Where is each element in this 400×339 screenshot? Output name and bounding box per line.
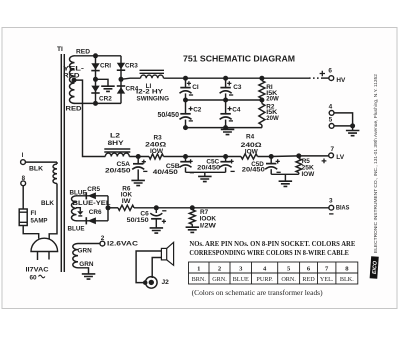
diode CR5 bbox=[85, 192, 87, 199]
node C3 top bbox=[223, 76, 228, 81]
node C6 bbox=[154, 205, 159, 210]
wire heater bottom to ground bbox=[78, 268, 89, 274]
svg-text:GRN: GRN bbox=[78, 247, 93, 254]
resistor R4 bbox=[241, 154, 258, 159]
svg-text:L2: L2 bbox=[110, 132, 121, 139]
resistor R5 bbox=[296, 158, 302, 172]
node center tap bbox=[72, 78, 77, 83]
node C5B bbox=[183, 154, 188, 159]
svg-text:4: 4 bbox=[329, 104, 333, 111]
svg-text:CR5: CR5 bbox=[87, 186, 100, 193]
ground (R7) bbox=[186, 227, 200, 232]
svg-text:20/450: 20/450 bbox=[242, 167, 266, 174]
minus sign BIAS bbox=[329, 213, 333, 215]
svg-text:BRN.: BRN. bbox=[192, 276, 207, 283]
capacitor C1 bbox=[185, 78, 187, 87]
svg-text:GRN.: GRN. bbox=[212, 276, 227, 283]
svg-text:BLUE: BLUE bbox=[233, 276, 249, 283]
svg-text:BLK: BLK bbox=[29, 166, 43, 173]
svg-text:ORN.: ORN. bbox=[281, 276, 296, 283]
ground (filter bank) bbox=[227, 128, 229, 130]
ground (heater) bbox=[82, 274, 96, 279]
node R1/R2 bbox=[259, 98, 264, 103]
svg-text:NOs. ARE PIN NOs. ON 8-PIN SOC: NOs. ARE PIN NOs. ON 8-PIN SOCKET. COLOR… bbox=[189, 240, 355, 248]
svg-text:I2-2 HY: I2-2 HY bbox=[136, 89, 164, 96]
wire pins 4,5 to ground bbox=[334, 113, 353, 126]
svg-text:CI: CI bbox=[192, 84, 199, 91]
svg-text:IOW: IOW bbox=[302, 171, 316, 178]
svg-text:IW: IW bbox=[122, 198, 132, 205]
capacitor C5C bbox=[225, 157, 227, 162]
EICO logo bbox=[370, 256, 379, 278]
svg-text:751 SCHEMATIC DIAGRAM: 751 SCHEMATIC DIAGRAM bbox=[183, 55, 295, 64]
wire L2 to R3 bbox=[129, 156, 149, 158]
svg-text:II7VAC: II7VAC bbox=[26, 267, 49, 274]
svg-text:EICO: EICO bbox=[372, 260, 379, 274]
svg-text:PURP.: PURP. bbox=[256, 276, 273, 283]
node C4 bottom bbox=[223, 125, 228, 130]
wire HV secondary bottom bbox=[74, 102, 122, 104]
node bottom tap bbox=[93, 101, 98, 106]
capacitor C5A bbox=[137, 157, 139, 164]
svg-text:YEL.: YEL. bbox=[320, 276, 334, 283]
svg-text:R4: R4 bbox=[246, 133, 255, 140]
svg-text:BIAS: BIAS bbox=[336, 205, 350, 212]
svg-text:TI: TI bbox=[57, 46, 63, 53]
speaker cone bbox=[167, 242, 174, 265]
wire mid rail bbox=[186, 99, 262, 101]
svg-text:IOW: IOW bbox=[150, 148, 164, 155]
wire center tap to chassis bbox=[76, 208, 80, 212]
svg-text:20/450: 20/450 bbox=[197, 165, 221, 172]
transformer T1 core bbox=[61, 54, 64, 272]
capacitor C6 (reversed) bbox=[155, 208, 157, 213]
svg-text:8HY: 8HY bbox=[108, 140, 125, 147]
ground (pins 4,5) bbox=[352, 126, 354, 130]
svg-text:LV: LV bbox=[336, 154, 345, 161]
svg-text:C3: C3 bbox=[233, 84, 242, 91]
transformer T1 primary winding bbox=[53, 164, 57, 184]
svg-text:RED: RED bbox=[66, 105, 82, 112]
fuse F1 bbox=[19, 209, 27, 226]
wire fuse to plug bbox=[23, 226, 39, 239]
wire bias node to R6 bbox=[108, 207, 118, 209]
svg-text:C4: C4 bbox=[232, 106, 241, 113]
ground (C5B/C5C) bbox=[204, 172, 206, 176]
svg-text:20W: 20W bbox=[266, 115, 279, 122]
diode CR4 bbox=[117, 85, 125, 87]
inductor L2 bbox=[105, 153, 129, 156]
node top tap bbox=[93, 53, 98, 58]
ground (C5A) bbox=[131, 180, 145, 185]
wire bias output bbox=[107, 196, 109, 221]
svg-text:CRI: CRI bbox=[100, 63, 111, 70]
node pins junction bbox=[350, 123, 355, 128]
ground (bridge center) bbox=[101, 86, 115, 91]
wire to bridge ground bbox=[96, 79, 109, 86]
node R1 top bbox=[259, 76, 264, 81]
node C1/C2 mid bbox=[183, 98, 188, 103]
svg-text:(Colors on schematic are trans: (Colors on schematic are transformer lea… bbox=[192, 289, 324, 297]
svg-text:50/450: 50/450 bbox=[158, 110, 180, 119]
wire to HV terminal (part dashed) bbox=[262, 77, 309, 79]
node R7 bbox=[190, 205, 195, 210]
wire bias bottom bbox=[76, 220, 108, 222]
wire L1 to filter bank bbox=[164, 77, 262, 79]
svg-text:40/450: 40/450 bbox=[153, 169, 179, 176]
chassis ground (bias center tap) bbox=[77, 211, 83, 215]
svg-text:RED: RED bbox=[63, 73, 80, 80]
capacitor C3 bbox=[225, 78, 227, 87]
node R5 bbox=[296, 153, 301, 158]
AC line plug bbox=[31, 238, 58, 251]
node CR1-CR2 junction bbox=[93, 77, 98, 82]
svg-text:C2: C2 bbox=[193, 106, 202, 113]
svg-text:HV: HV bbox=[336, 77, 346, 84]
transformer T1 HV secondary winding bbox=[70, 56, 75, 104]
wire bottom rail bbox=[186, 127, 262, 129]
svg-text:20/450: 20/450 bbox=[105, 167, 131, 174]
wire primary bottom to plug bbox=[49, 184, 57, 240]
svg-text:BLUE: BLUE bbox=[68, 225, 86, 232]
resistor R6 bbox=[118, 205, 134, 210]
transformer T1 heater winding bbox=[73, 244, 78, 268]
svg-text:RED: RED bbox=[302, 276, 315, 283]
plus sign HV bbox=[320, 71, 325, 76]
capacitor C5D bbox=[270, 157, 272, 164]
wire HV secondary top bbox=[74, 55, 122, 57]
svg-text:YEL-: YEL- bbox=[63, 65, 84, 72]
capacitor C4 bbox=[225, 100, 227, 114]
wire speaker to jack sleeve bbox=[136, 251, 161, 283]
svg-text:J2: J2 bbox=[162, 279, 170, 286]
node HV rectifier output bbox=[119, 77, 124, 82]
svg-text:ELECTRONIC INSTRUMENT CO., INC: ELECTRONIC INSTRUMENT CO., INC., 131-01 … bbox=[373, 74, 378, 253]
svg-text:CORRESPONDING WIRE COLORS IN 8: CORRESPONDING WIRE COLORS IN 8-WIRE CABL… bbox=[189, 249, 349, 257]
ground (C5D/R5) bbox=[284, 174, 286, 181]
svg-text:5: 5 bbox=[329, 117, 333, 124]
svg-text:BLUE-YEL: BLUE-YEL bbox=[73, 200, 111, 207]
svg-text:1: 1 bbox=[197, 266, 200, 273]
svg-text:CR3: CR3 bbox=[125, 63, 138, 70]
resistor R7 bbox=[189, 210, 195, 225]
wire terminal8 to fuse bbox=[22, 186, 24, 209]
svg-text:I/2W: I/2W bbox=[200, 223, 217, 230]
diode CR6 bbox=[85, 217, 87, 224]
node C1 top bbox=[183, 76, 188, 81]
svg-text:IOW: IOW bbox=[245, 148, 259, 155]
wire R6 to bias terminal bbox=[134, 207, 329, 209]
wire bias top bbox=[76, 195, 108, 197]
capacitor C5B bbox=[185, 157, 187, 162]
node C5D bbox=[269, 154, 274, 159]
svg-text:6: 6 bbox=[328, 67, 332, 74]
svg-text:RED: RED bbox=[76, 48, 90, 55]
diode CR1 bbox=[91, 63, 99, 69]
wire heater top to terminal 2 bbox=[78, 243, 100, 245]
wire C5B/C5C bottoms bbox=[186, 171, 226, 173]
svg-text:5AMP: 5AMP bbox=[31, 217, 49, 224]
svg-text:3: 3 bbox=[329, 198, 333, 205]
svg-text:50/150: 50/150 bbox=[127, 217, 150, 224]
resistor R1 bbox=[259, 81, 265, 99]
resistor R2 bbox=[259, 104, 265, 125]
svg-text:60: 60 bbox=[30, 275, 38, 282]
svg-text:BLK: BLK bbox=[41, 200, 54, 207]
svg-text:R3: R3 bbox=[154, 134, 163, 141]
svg-text:SWINGING: SWINGING bbox=[137, 96, 170, 103]
diode CR3 bbox=[117, 63, 125, 70]
wire rectifier to L1 bbox=[121, 78, 141, 79]
wire C5D to R5 bottom bbox=[271, 173, 299, 175]
jack J2 bbox=[146, 277, 158, 289]
wire center tap down to LV filter bbox=[74, 80, 105, 156]
speaker frame bbox=[161, 248, 166, 260]
transformer T1 bias secondary winding bbox=[71, 196, 76, 221]
inductor L1 bbox=[141, 75, 164, 78]
svg-text:I2.6VAC: I2.6VAC bbox=[107, 240, 138, 247]
wire speaker to jack tip bbox=[152, 258, 161, 279]
wire R3 to R4 bbox=[164, 156, 242, 158]
wire terminal1 to primary bbox=[25, 161, 57, 163]
svg-text:BLK.: BLK. bbox=[340, 276, 354, 283]
svg-text:CR6: CR6 bbox=[89, 209, 102, 216]
capacitor C2 bbox=[185, 100, 187, 114]
svg-text:FI: FI bbox=[31, 210, 37, 217]
wire color table bbox=[189, 262, 358, 284]
node bias output bbox=[106, 205, 111, 210]
svg-text:CR2: CR2 bbox=[99, 95, 112, 102]
wire CR1 branch bbox=[95, 56, 97, 104]
node C5C bbox=[223, 154, 228, 159]
node C2 bottom bbox=[183, 125, 188, 130]
resistor R3 bbox=[149, 154, 164, 159]
diode CR2 bbox=[91, 86, 99, 93]
wire CR3/CR4 branch bbox=[120, 56, 122, 104]
ground (C6) bbox=[150, 228, 164, 233]
plus sign LV bbox=[322, 159, 327, 164]
svg-text:20W: 20W bbox=[266, 96, 279, 103]
wire R4 to LV terminal bbox=[258, 155, 330, 158]
node C5A bbox=[136, 154, 141, 159]
node C3/C4 mid bbox=[223, 98, 228, 103]
svg-text:I: I bbox=[22, 152, 24, 159]
svg-text:7: 7 bbox=[331, 146, 335, 153]
